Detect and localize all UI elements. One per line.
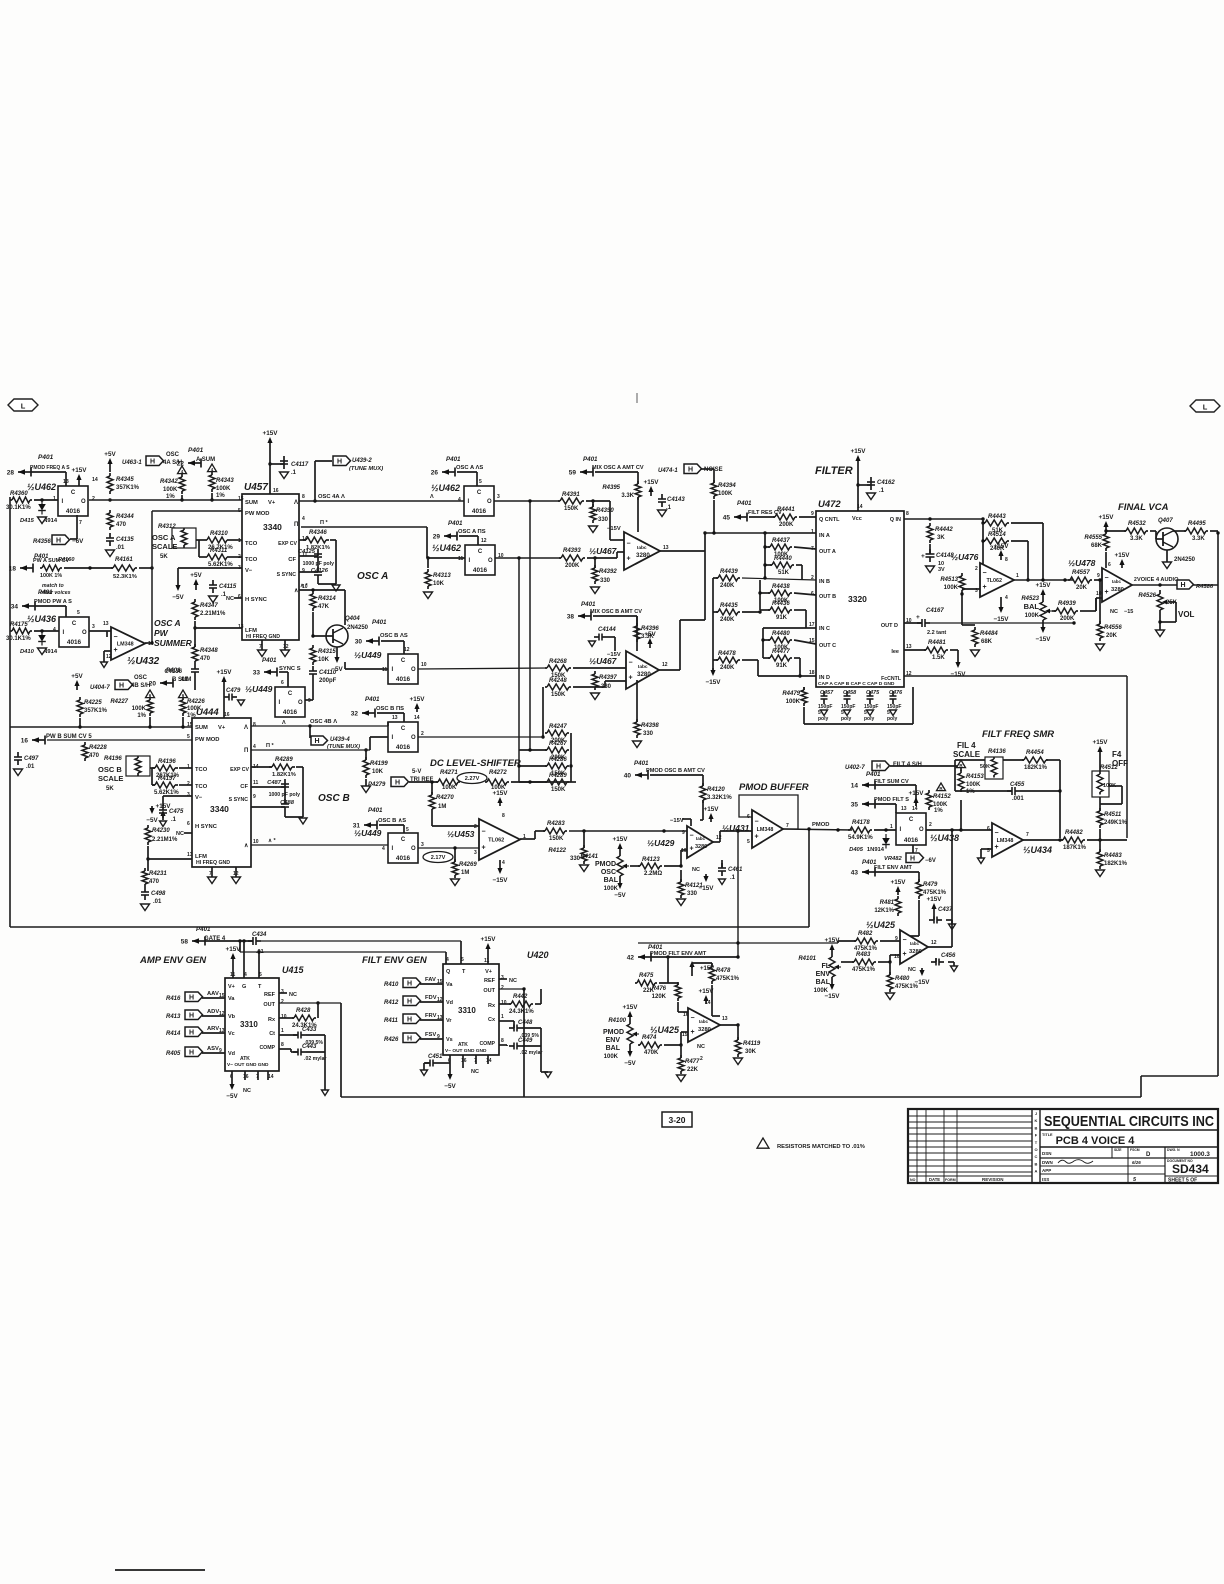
oval 2.17V [423, 852, 453, 863]
svg-text:Q404: Q404 [345, 616, 360, 622]
svg-text:C475: C475 [169, 809, 184, 815]
wire r4268 to u467b [573, 667, 626, 669]
resistor R4314 47K [310, 591, 336, 611]
svg-text:SD434: SD434 [1172, 1162, 1209, 1176]
svg-text:14: 14 [851, 783, 859, 790]
capacitor C487 1000pF [267, 779, 300, 798]
wire u462c out [495, 557, 561, 559]
svg-text:IN A: IN A [819, 533, 830, 539]
svg-text:2.21M1%: 2.21M1% [152, 837, 178, 843]
resistor R482 475K1% [854, 931, 878, 952]
svg-text:D: D [1146, 1152, 1151, 1158]
resistor R4435 240K [716, 603, 740, 623]
resistor R4120 3.32K1% [700, 783, 732, 803]
svg-text:470: 470 [149, 879, 160, 885]
wire u453 plus [454, 848, 456, 862]
svg-text:REF: REF [264, 992, 276, 998]
svg-text:R4556: R4556 [1104, 625, 1122, 631]
wire y943 bus [638, 942, 838, 944]
svg-text:.1: .1 [221, 592, 227, 598]
svg-text:R4230: R4230 [152, 828, 170, 834]
svg-text:VR482: VR482 [884, 856, 903, 862]
wire pwbsum [47, 739, 192, 741]
svg-text:Q IN: Q IN [890, 517, 901, 523]
svg-text:B: B [1035, 1161, 1038, 1166]
wire r4441 to qcntl [749, 516, 775, 518]
svg-text:SUM: SUM [195, 725, 208, 731]
svg-text:13: 13 [63, 479, 69, 485]
svg-text:R4438: R4438 [772, 584, 790, 590]
svg-text:ADV: ADV [207, 1009, 219, 1015]
resistor R4397 330 [592, 671, 617, 690]
svg-text:R4283: R4283 [547, 821, 565, 827]
svg-text:+: + [903, 951, 907, 958]
svg-text:OSC A: OSC A [154, 618, 181, 628]
connector P401 PMOD OSC B AMT CV pin 40 [624, 760, 705, 780]
osc a scale pot R4312 [152, 524, 196, 560]
svg-text:P401: P401 [737, 500, 752, 507]
resistor R478 475K1% [709, 964, 740, 984]
svg-text:H: H [407, 1035, 412, 1042]
svg-text:C: C [71, 490, 76, 496]
resistor R4482 187K1% [1061, 830, 1087, 851]
svg-text:330: 330 [600, 578, 611, 584]
svg-text:100K: 100K [604, 1054, 619, 1060]
svg-text:R4120: R4120 [707, 787, 725, 793]
svg-text:IN C: IN C [819, 626, 830, 632]
power +15V R4100 [629, 1016, 631, 1020]
svg-text:TCO: TCO [245, 541, 258, 547]
wire osc outputs to dc shifter a [518, 558, 520, 782]
svg-text:3: 3 [421, 842, 424, 848]
svg-text:470: 470 [89, 753, 100, 759]
svg-text:R4153: R4153 [966, 774, 984, 780]
svg-text:R4483: R4483 [1104, 853, 1122, 859]
wire r483 [841, 961, 854, 963]
svg-text:Iabc: Iabc [910, 941, 920, 946]
svg-text:PCB 4 VOICE 4: PCB 4 VOICE 4 [1056, 1135, 1136, 1147]
svg-text:+15V: +15V [909, 790, 925, 797]
page marker L right [1190, 400, 1220, 412]
svg-text:R4315: R4315 [318, 649, 336, 655]
sheet reference 3-20 [662, 1112, 692, 1127]
ground R480 [886, 993, 895, 1000]
ground C458 [844, 710, 851, 716]
svg-text:RESISTORS MATCHED TO .01%: RESISTORS MATCHED TO .01% [777, 1144, 865, 1150]
svg-text:34: 34 [11, 604, 19, 611]
svg-text:22: 22 [177, 461, 185, 468]
svg-text:150K: 150K [564, 506, 579, 512]
svg-text:−: − [629, 659, 633, 666]
resistor R4230 2.21M1% [145, 825, 178, 845]
svg-text:−: − [690, 833, 694, 840]
svg-text:NC: NC [289, 992, 297, 998]
svg-text:OUT D: OUT D [881, 623, 898, 629]
wire u425a out [720, 1024, 738, 1026]
svg-text:R4477: R4477 [772, 649, 790, 655]
svg-text:.02 mylar: .02 mylar [304, 1056, 327, 1062]
wire u415 v+ [232, 962, 234, 978]
svg-text:45: 45 [723, 515, 731, 522]
wire pmod down [737, 831, 739, 957]
wire u467b out [659, 669, 680, 671]
power +15V U457 [269, 442, 271, 452]
wire r482 [838, 940, 856, 942]
switch U449b (4016) [382, 647, 427, 684]
power -15V C461 [705, 874, 707, 877]
svg-text:R4286: R4286 [549, 757, 567, 763]
svg-text:2: 2 [501, 985, 504, 991]
label NC ref u420 [499, 978, 507, 980]
wire QIN [904, 518, 983, 520]
svg-text:SUMMER: SUMMER [154, 638, 193, 648]
svg-text:3K: 3K [937, 535, 945, 541]
svg-text:OSC A ΛS: OSC A ΛS [456, 465, 483, 471]
svg-text:C451: C451 [428, 1054, 443, 1060]
svg-text:FRV: FRV [425, 1013, 437, 1019]
triangle match r4153 [957, 760, 966, 768]
transistor Q404 2N4250 [326, 616, 369, 647]
svg-text:9: 9 [1097, 573, 1100, 579]
svg-text:52.3K1%: 52.3K1% [113, 574, 137, 580]
svg-text:P401: P401 [166, 667, 181, 674]
svg-text:R4394: R4394 [718, 483, 736, 489]
ground C4144 [589, 641, 596, 647]
ground R4121 [677, 899, 686, 906]
svg-text:NC: NC [226, 596, 234, 602]
svg-text:R482: R482 [858, 931, 873, 937]
resistor R4391 150K [558, 492, 584, 512]
svg-text:240K: 240K [720, 665, 735, 671]
svg-text:½U438: ½U438 [930, 833, 959, 843]
svg-text:NC: NC [243, 1088, 251, 1094]
svg-text:OSC A: OSC A [357, 571, 388, 582]
svg-text:U463-1: U463-1 [122, 460, 142, 466]
svg-text:R4123: R4123 [642, 857, 660, 863]
resistor R4267 200K [545, 741, 569, 761]
svg-text:Iabc: Iabc [637, 545, 647, 551]
svg-text:4: 4 [502, 860, 505, 866]
svg-text:9: 9 [253, 794, 256, 800]
svg-text:R4398: R4398 [641, 723, 659, 729]
svg-text:C487: C487 [267, 780, 282, 786]
svg-text:R410: R410 [384, 982, 399, 988]
svg-text:R4141: R4141 [580, 854, 598, 860]
svg-text:VOICE 4 AUDIO: VOICE 4 AUDIO [1137, 577, 1179, 583]
svg-text:L: L [1203, 403, 1208, 412]
wire conn35 [875, 803, 896, 805]
resistor R4443 51K [983, 514, 1009, 534]
ground R4269 [451, 879, 460, 886]
svg-text:5: 5 [259, 972, 262, 978]
svg-text:U420: U420 [527, 950, 549, 960]
svg-text:R4197: R4197 [158, 776, 176, 782]
svg-text:1M: 1M [461, 870, 469, 876]
ground below D415 [38, 517, 47, 524]
svg-text:10K: 10K [433, 581, 445, 587]
svg-text:B: B [1035, 1125, 1038, 1130]
capacitor C455 .001 [1007, 782, 1025, 802]
svg-text:V+: V+ [268, 500, 276, 506]
capacitor C4143 [658, 494, 685, 511]
wire conn34 [35, 605, 66, 607]
svg-text:U472: U472 [818, 499, 841, 510]
svg-text:33: 33 [253, 670, 261, 677]
resistor R4480 100K [768, 631, 792, 651]
svg-text:C456: C456 [941, 953, 956, 959]
svg-text:4B S/H: 4B S/H [131, 683, 150, 689]
wire u420 v+ [487, 952, 489, 964]
ground C476 [890, 710, 897, 716]
svg-text:100K: 100K [163, 487, 178, 493]
svg-text:R4511: R4511 [1104, 812, 1122, 818]
svg-text:TCO: TCO [245, 557, 258, 563]
svg-text:4: 4 [253, 744, 256, 750]
resistor R4248 150K [545, 678, 571, 698]
svg-text:R4268: R4268 [549, 659, 567, 665]
capacitor C488 [280, 798, 295, 817]
svg-text:4016: 4016 [396, 855, 411, 862]
svg-text:100K: 100K [1025, 613, 1040, 619]
wire r4480 [763, 639, 770, 641]
wire osc outputs to dc shifter b [529, 501, 531, 750]
svg-text:R4512: R4512 [1100, 765, 1118, 771]
svg-text:−: − [995, 830, 999, 837]
svg-text:6: 6 [987, 826, 990, 832]
wire r4199 [364, 748, 367, 751]
power -5V U415 [231, 1082, 233, 1085]
wire border step horizontal [1141, 1075, 1218, 1077]
svg-text:13: 13 [901, 806, 907, 812]
svg-text:5: 5 [747, 839, 750, 845]
svg-text:16: 16 [461, 1058, 467, 1064]
svg-text:PMOD PW A S: PMOD PW A S [34, 599, 72, 605]
svg-text:∧: ∧ [244, 843, 248, 849]
power -15V R4101 [831, 981, 833, 985]
wire ind [742, 659, 758, 661]
wire r4248 left leg [542, 687, 544, 737]
svg-text:CF: CF [288, 557, 296, 563]
opamp U467a (3280) [624, 497, 669, 570]
svg-text:2: 2 [421, 731, 424, 737]
svg-text:SUM: SUM [245, 500, 258, 506]
resistor R481 121K1% [874, 896, 901, 916]
resistor R4175 30.1K1% [6, 622, 32, 642]
svg-text:PW: PW [154, 628, 169, 638]
svg-text:EXP CV: EXP CV [230, 767, 249, 773]
resistor R4479 100K [782, 687, 807, 706]
resistor R4532 3.3K [1124, 521, 1148, 542]
svg-text:16: 16 [21, 738, 29, 745]
svg-text:1: 1 [238, 538, 241, 544]
svg-text:−15V: −15V [825, 993, 841, 1000]
svg-text:50K: 50K [980, 764, 990, 770]
resistor R4268 150K [545, 659, 571, 679]
power +15V R4555 [1105, 526, 1107, 530]
resistor R4228 470 [82, 742, 107, 761]
svg-text:COMP: COMP [259, 1045, 275, 1051]
svg-text:R4440: R4440 [774, 556, 792, 562]
svg-text:+15V: +15V [1115, 552, 1131, 559]
wire fccntl [904, 675, 1127, 677]
resistor R4123 2.2M [638, 857, 662, 877]
wire conn38 to bias [593, 615, 637, 617]
wire conn26 [457, 471, 477, 473]
svg-text:LM348: LM348 [117, 642, 134, 648]
capacitor C475f 150pF [864, 690, 880, 722]
triangle match mark c [146, 690, 155, 698]
wire u444 v+ stub [223, 688, 225, 718]
power +15V U453 [499, 802, 501, 806]
svg-text:poly: poly [818, 716, 828, 722]
wire bottom bus [341, 1096, 1141, 1098]
svg-text:P401: P401 [583, 456, 598, 463]
wire conn32 [377, 712, 404, 714]
svg-text:150K: 150K [549, 836, 564, 842]
switch U449d (4016) [382, 833, 424, 863]
svg-text:SCALE: SCALE [152, 542, 177, 551]
svg-text:R4272: R4272 [489, 770, 507, 776]
svg-text:200pF: 200pF [319, 678, 337, 684]
svg-text:P401: P401 [38, 454, 54, 461]
svg-text:470K: 470K [644, 1050, 659, 1056]
svg-text:O: O [1034, 1147, 1037, 1152]
svg-text:IN B: IN B [819, 579, 830, 585]
svg-text:ATK: ATK [458, 1042, 468, 1048]
resistor R480 475K1% [887, 972, 919, 992]
svg-text:EXP CV: EXP CV [278, 541, 297, 547]
svg-text:1: 1 [1016, 573, 1019, 579]
svg-text:C437: C437 [938, 907, 953, 913]
svg-text:43: 43 [851, 870, 859, 877]
svg-text:240K: 240K [720, 583, 735, 589]
resistor R4436 91K [768, 601, 792, 621]
svg-text:NC: NC [908, 967, 916, 973]
svg-text:R405: R405 [166, 1051, 181, 1057]
svg-text:F4: F4 [1112, 750, 1122, 759]
svg-text:C479: C479 [226, 688, 241, 694]
svg-text:1000.3: 1000.3 [1190, 1151, 1210, 1158]
capacitor C434 .01 [248, 932, 267, 955]
svg-text:4016: 4016 [473, 567, 488, 574]
wire r479 down [918, 900, 920, 936]
svg-text:26: 26 [431, 470, 439, 477]
svg-text:½U467: ½U467 [589, 546, 618, 556]
svg-text:240K: 240K [720, 617, 735, 623]
wire dc rail [570, 733, 572, 782]
resistor R4346 1.82K1% [303, 530, 330, 551]
svg-text:OUT C: OUT C [819, 643, 836, 649]
svg-text:Q CNTL: Q CNTL [819, 517, 840, 523]
svg-text:R479: R479 [923, 882, 938, 888]
svg-text:C498: C498 [151, 891, 166, 897]
resistor R4495 3.3K [1184, 521, 1208, 542]
power +15V U449a [223, 681, 225, 688]
svg-text:(TUNE MUX): (TUNE MUX) [349, 466, 383, 472]
svg-text:MIX OSC B AMT CV: MIX OSC B AMT CV [590, 609, 642, 615]
svg-text:R4175: R4175 [10, 622, 28, 628]
svg-text:3280: 3280 [695, 844, 707, 850]
svg-text:R4196: R4196 [104, 756, 122, 762]
svg-text:R4480: R4480 [772, 631, 790, 637]
svg-text:1.5K: 1.5K [932, 655, 945, 661]
power +15V f4 [1099, 751, 1101, 756]
resistor R4289 1.82K1% [269, 757, 296, 778]
svg-text:PMOD OSC B AMT CV: PMOD OSC B AMT CV [646, 768, 705, 774]
ground C451 [421, 1063, 431, 1076]
capacitor C443 .02 mylar [293, 1044, 327, 1062]
resistor R4556 20K [1097, 621, 1122, 641]
svg-text:20K: 20K [1106, 633, 1118, 639]
wire r4514 loop [982, 523, 984, 573]
ground C479 [238, 700, 245, 706]
flag VR482 to -6V [884, 853, 936, 864]
capacitor C475 [159, 805, 184, 823]
svg-text:1M: 1M [438, 804, 446, 810]
wire outd [930, 622, 1074, 624]
svg-text:16: 16 [273, 488, 279, 494]
wire ladder rail [712, 578, 714, 670]
svg-text:H: H [189, 994, 194, 1001]
svg-text:1.82K1%: 1.82K1% [272, 772, 296, 778]
power +5V u467b [649, 643, 651, 648]
svg-text:4: 4 [244, 972, 247, 978]
triangle match mark d [179, 690, 188, 698]
svg-text:R4226: R4226 [187, 699, 205, 705]
switch U462c (4016) [458, 538, 504, 575]
wire c4136 down [194, 677, 196, 690]
svg-text:R4514: R4514 [988, 532, 1006, 538]
svg-text:TCO: TCO [195, 767, 208, 773]
ground below C4117 [280, 472, 289, 479]
svg-text:O: O [298, 700, 303, 706]
svg-text:14: 14 [414, 715, 420, 721]
wire lfm b [147, 846, 149, 871]
resistor R4484 68K [972, 627, 998, 647]
wire caps box [803, 687, 805, 690]
wire r4122 [583, 831, 585, 848]
svg-text:P401: P401 [262, 657, 277, 664]
svg-text:C476: C476 [889, 690, 903, 696]
svg-text:4: 4 [302, 516, 305, 522]
resistor R4152 100K 1% [926, 790, 951, 814]
capacitor C457 150pF [818, 690, 834, 722]
svg-text:Π: Π [294, 522, 298, 528]
resistor R4511 249K1% [1097, 808, 1128, 828]
ground C475f [867, 710, 874, 716]
wire r4440 [765, 564, 772, 566]
ground D410 [38, 648, 47, 655]
svg-text:P401: P401 [372, 619, 387, 626]
svg-text:+: + [755, 834, 759, 841]
wire r4123 [630, 865, 640, 867]
svg-text:R4152: R4152 [933, 794, 951, 800]
svg-text:−15V: −15V [670, 818, 684, 824]
svg-text:LM348: LM348 [997, 838, 1014, 844]
wire conn29 [459, 535, 478, 537]
flag U404-7 OSC 4B S/H [90, 675, 150, 691]
svg-text:357K1%: 357K1% [84, 708, 108, 714]
wire pot to tco [196, 539, 204, 541]
svg-text:Q407: Q407 [1158, 518, 1173, 524]
flag R411 FRV [384, 1013, 443, 1024]
svg-text:54.9K1%: 54.9K1% [848, 835, 873, 841]
resistor R4160 100K 1% [40, 557, 75, 596]
svg-text:4: 4 [446, 957, 449, 963]
svg-text:+15V: +15V [1036, 582, 1052, 589]
svg-text:R4397: R4397 [599, 675, 617, 681]
wire r428 [279, 1017, 294, 1019]
